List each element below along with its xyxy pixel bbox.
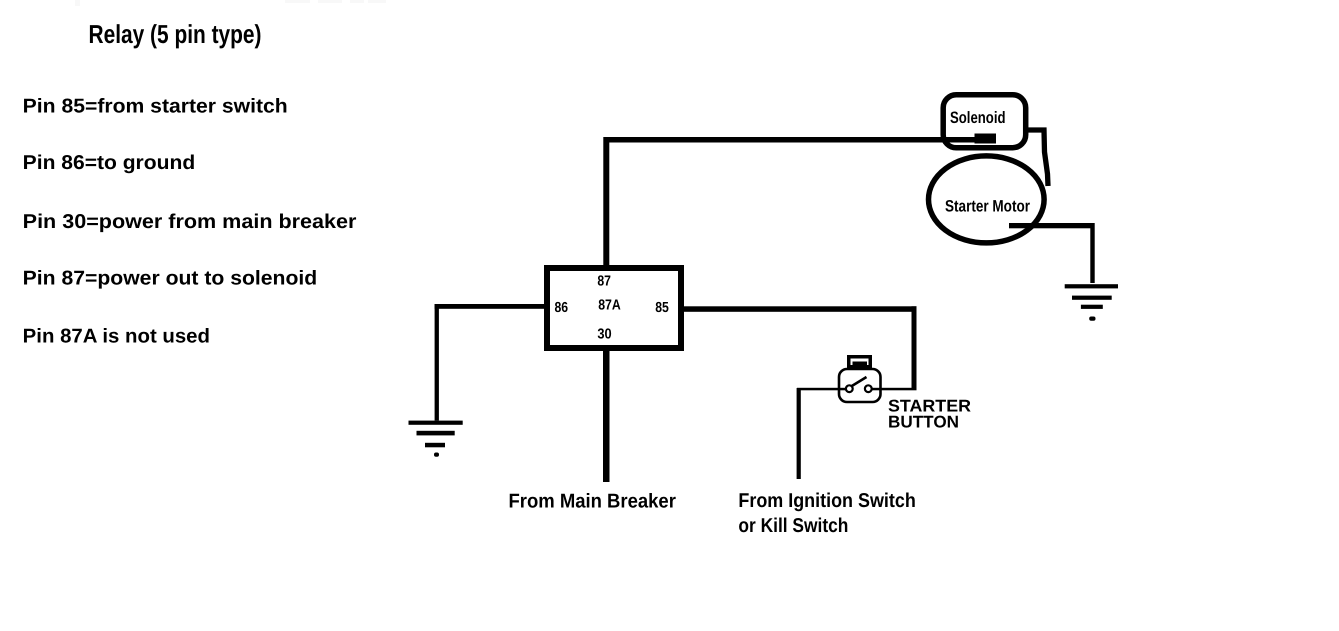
switch terminal left [846,385,853,392]
label From Main Breaker [509,491,677,513]
svg-text:87: 87 [597,274,611,290]
label From Ignition Switch [738,490,915,512]
artifact faint top edge [75,0,386,6]
svg-text:From Ignition Switch: From Ignition Switch [738,490,915,512]
note Pin 30 [23,211,357,233]
label or Kill Switch [738,515,848,537]
svg-text:or Kill Switch: or Kill Switch [738,515,848,537]
relay box [547,268,681,348]
svg-text:30: 30 [597,326,611,342]
svg-text:85: 85 [655,300,669,316]
wire right ground vertical [1090,223,1094,283]
ground right [1065,284,1118,321]
ground left [409,421,463,457]
wire left ground vertical [435,304,439,421]
starter button body [839,369,881,402]
svg-text:From Main Breaker: From Main Breaker [509,491,677,513]
starter button tab [847,355,872,369]
wire relay pin 86 horizontal [435,304,546,309]
svg-text:Pin 85=from starter switch: Pin 85=from starter switch [23,96,288,118]
svg-text:Pin 87A is not used: Pin 87A is not used [23,326,210,348]
wire ignition switch vertical [797,388,801,479]
pin label 86 [555,300,569,316]
svg-text:Solenoid: Solenoid [950,109,1006,127]
wire starter button vertical [912,306,917,389]
svg-text:Starter Motor: Starter Motor [945,197,1030,215]
wire switch left [797,388,846,391]
note Pin 87 [23,268,318,290]
note Pin 86 [23,152,196,174]
svg-text:Pin 30=power from main breaker: Pin 30=power from main breaker [23,211,357,233]
svg-text:87A: 87A [598,298,621,314]
title Relay (5 pin type) [89,19,262,49]
label Solenoid [950,109,1006,127]
solenoid terminal [975,134,997,144]
solenoid box [943,95,1025,148]
note Pin 85 [23,96,288,118]
wire relay pin 85 horizontal [684,306,917,312]
svg-text:Relay (5 pin type): Relay (5 pin type) [89,19,262,49]
pin label 30 [597,326,611,342]
wire starter motor to ground [1009,223,1095,228]
wire relay pin 87 vertical [603,137,609,267]
wire switch right [871,388,917,391]
svg-text:BUTTON: BUTTON [888,413,959,432]
wire relay pin 30 vertical [603,351,610,482]
svg-text:86: 86 [555,300,569,316]
pin label 87A [598,298,621,314]
wire entering solenoid [938,137,983,143]
label STARTER BUTTON [888,397,971,432]
wire top horizontal to solenoid [604,137,985,143]
starter motor circle [929,156,1045,243]
svg-text:Pin 86=to ground: Pin 86=to ground [23,152,196,174]
label Starter Motor [945,197,1030,215]
pin label 87 [597,274,611,290]
note Pin 87A [23,326,210,348]
switch terminal right [865,385,872,392]
pin label 85 [655,300,669,316]
switch lever [851,377,867,387]
wire solenoid to starter motor [1027,130,1048,186]
svg-text:Pin 87=power out to solenoid: Pin 87=power out to solenoid [23,268,318,290]
